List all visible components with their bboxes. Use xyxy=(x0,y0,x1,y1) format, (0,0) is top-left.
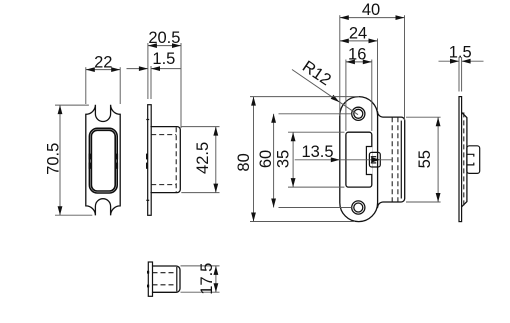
dimension 17.5 xyxy=(181,263,220,295)
svg-text:35: 35 xyxy=(275,150,293,168)
screw hole top xyxy=(352,107,365,120)
dimension 80 xyxy=(235,97,359,222)
svg-text:60: 60 xyxy=(257,150,275,168)
bottom spring marks xyxy=(147,271,149,288)
latch side bolt tab xyxy=(467,146,480,174)
latch face plate (stadium) xyxy=(340,97,378,222)
dimension 55 xyxy=(406,117,441,202)
bottom plate xyxy=(148,262,152,296)
latch opening xyxy=(346,132,372,187)
latch side centerline xyxy=(463,112,465,206)
svg-text:22: 22 xyxy=(94,53,112,71)
dimension 13.5 xyxy=(295,143,393,163)
svg-text:16: 16 xyxy=(348,45,366,63)
bottom body xyxy=(153,266,181,292)
dimension 16 xyxy=(346,45,372,130)
latch bolt tab xyxy=(366,147,372,175)
svg-text:1.5: 1.5 xyxy=(449,43,472,61)
svg-text:40: 40 xyxy=(362,1,380,19)
latch side body xyxy=(462,112,467,206)
svg-text:70.5: 70.5 xyxy=(45,143,63,175)
hidden body lines xyxy=(392,117,398,202)
svg-text:55: 55 xyxy=(416,150,434,168)
counter plate opening (double line) xyxy=(89,128,117,193)
svg-text:80: 80 xyxy=(235,153,253,171)
svg-text:1.5: 1.5 xyxy=(152,50,175,68)
svg-text:42.5: 42.5 xyxy=(194,142,212,174)
dimension 1.5 (latch plate) xyxy=(439,43,484,91)
spring tab dashes right xyxy=(115,154,118,169)
latch body behind xyxy=(378,112,405,208)
spring tab marks xyxy=(146,154,148,169)
latch bolt head xyxy=(369,152,380,167)
counter plate outline xyxy=(86,105,120,216)
dimension 70.5 xyxy=(45,105,93,215)
notch depth ticks xyxy=(146,120,149,201)
dimension 1.5 (plate thickness) xyxy=(127,50,182,99)
dimension 20.5 xyxy=(148,29,181,128)
spring tab dashes left xyxy=(89,154,92,169)
svg-text:20.5: 20.5 xyxy=(148,29,180,47)
dimension 60 xyxy=(257,114,352,208)
dimension 35 xyxy=(275,132,345,187)
svg-text:24: 24 xyxy=(349,24,367,42)
radius callout R12 xyxy=(292,57,358,114)
dimension 40 xyxy=(340,1,405,120)
bottom hidden lines xyxy=(153,273,176,285)
side body xyxy=(151,127,180,193)
side plate xyxy=(148,105,152,216)
dimension 24 xyxy=(340,24,378,110)
dimension 22 xyxy=(86,53,120,104)
svg-text:13.5: 13.5 xyxy=(301,143,333,161)
dimension 42.5 xyxy=(181,127,219,193)
latch side plate xyxy=(459,97,462,222)
svg-text:17.5: 17.5 xyxy=(198,263,216,295)
screw hole bottom xyxy=(352,201,365,214)
hidden magnet lines xyxy=(151,127,176,192)
